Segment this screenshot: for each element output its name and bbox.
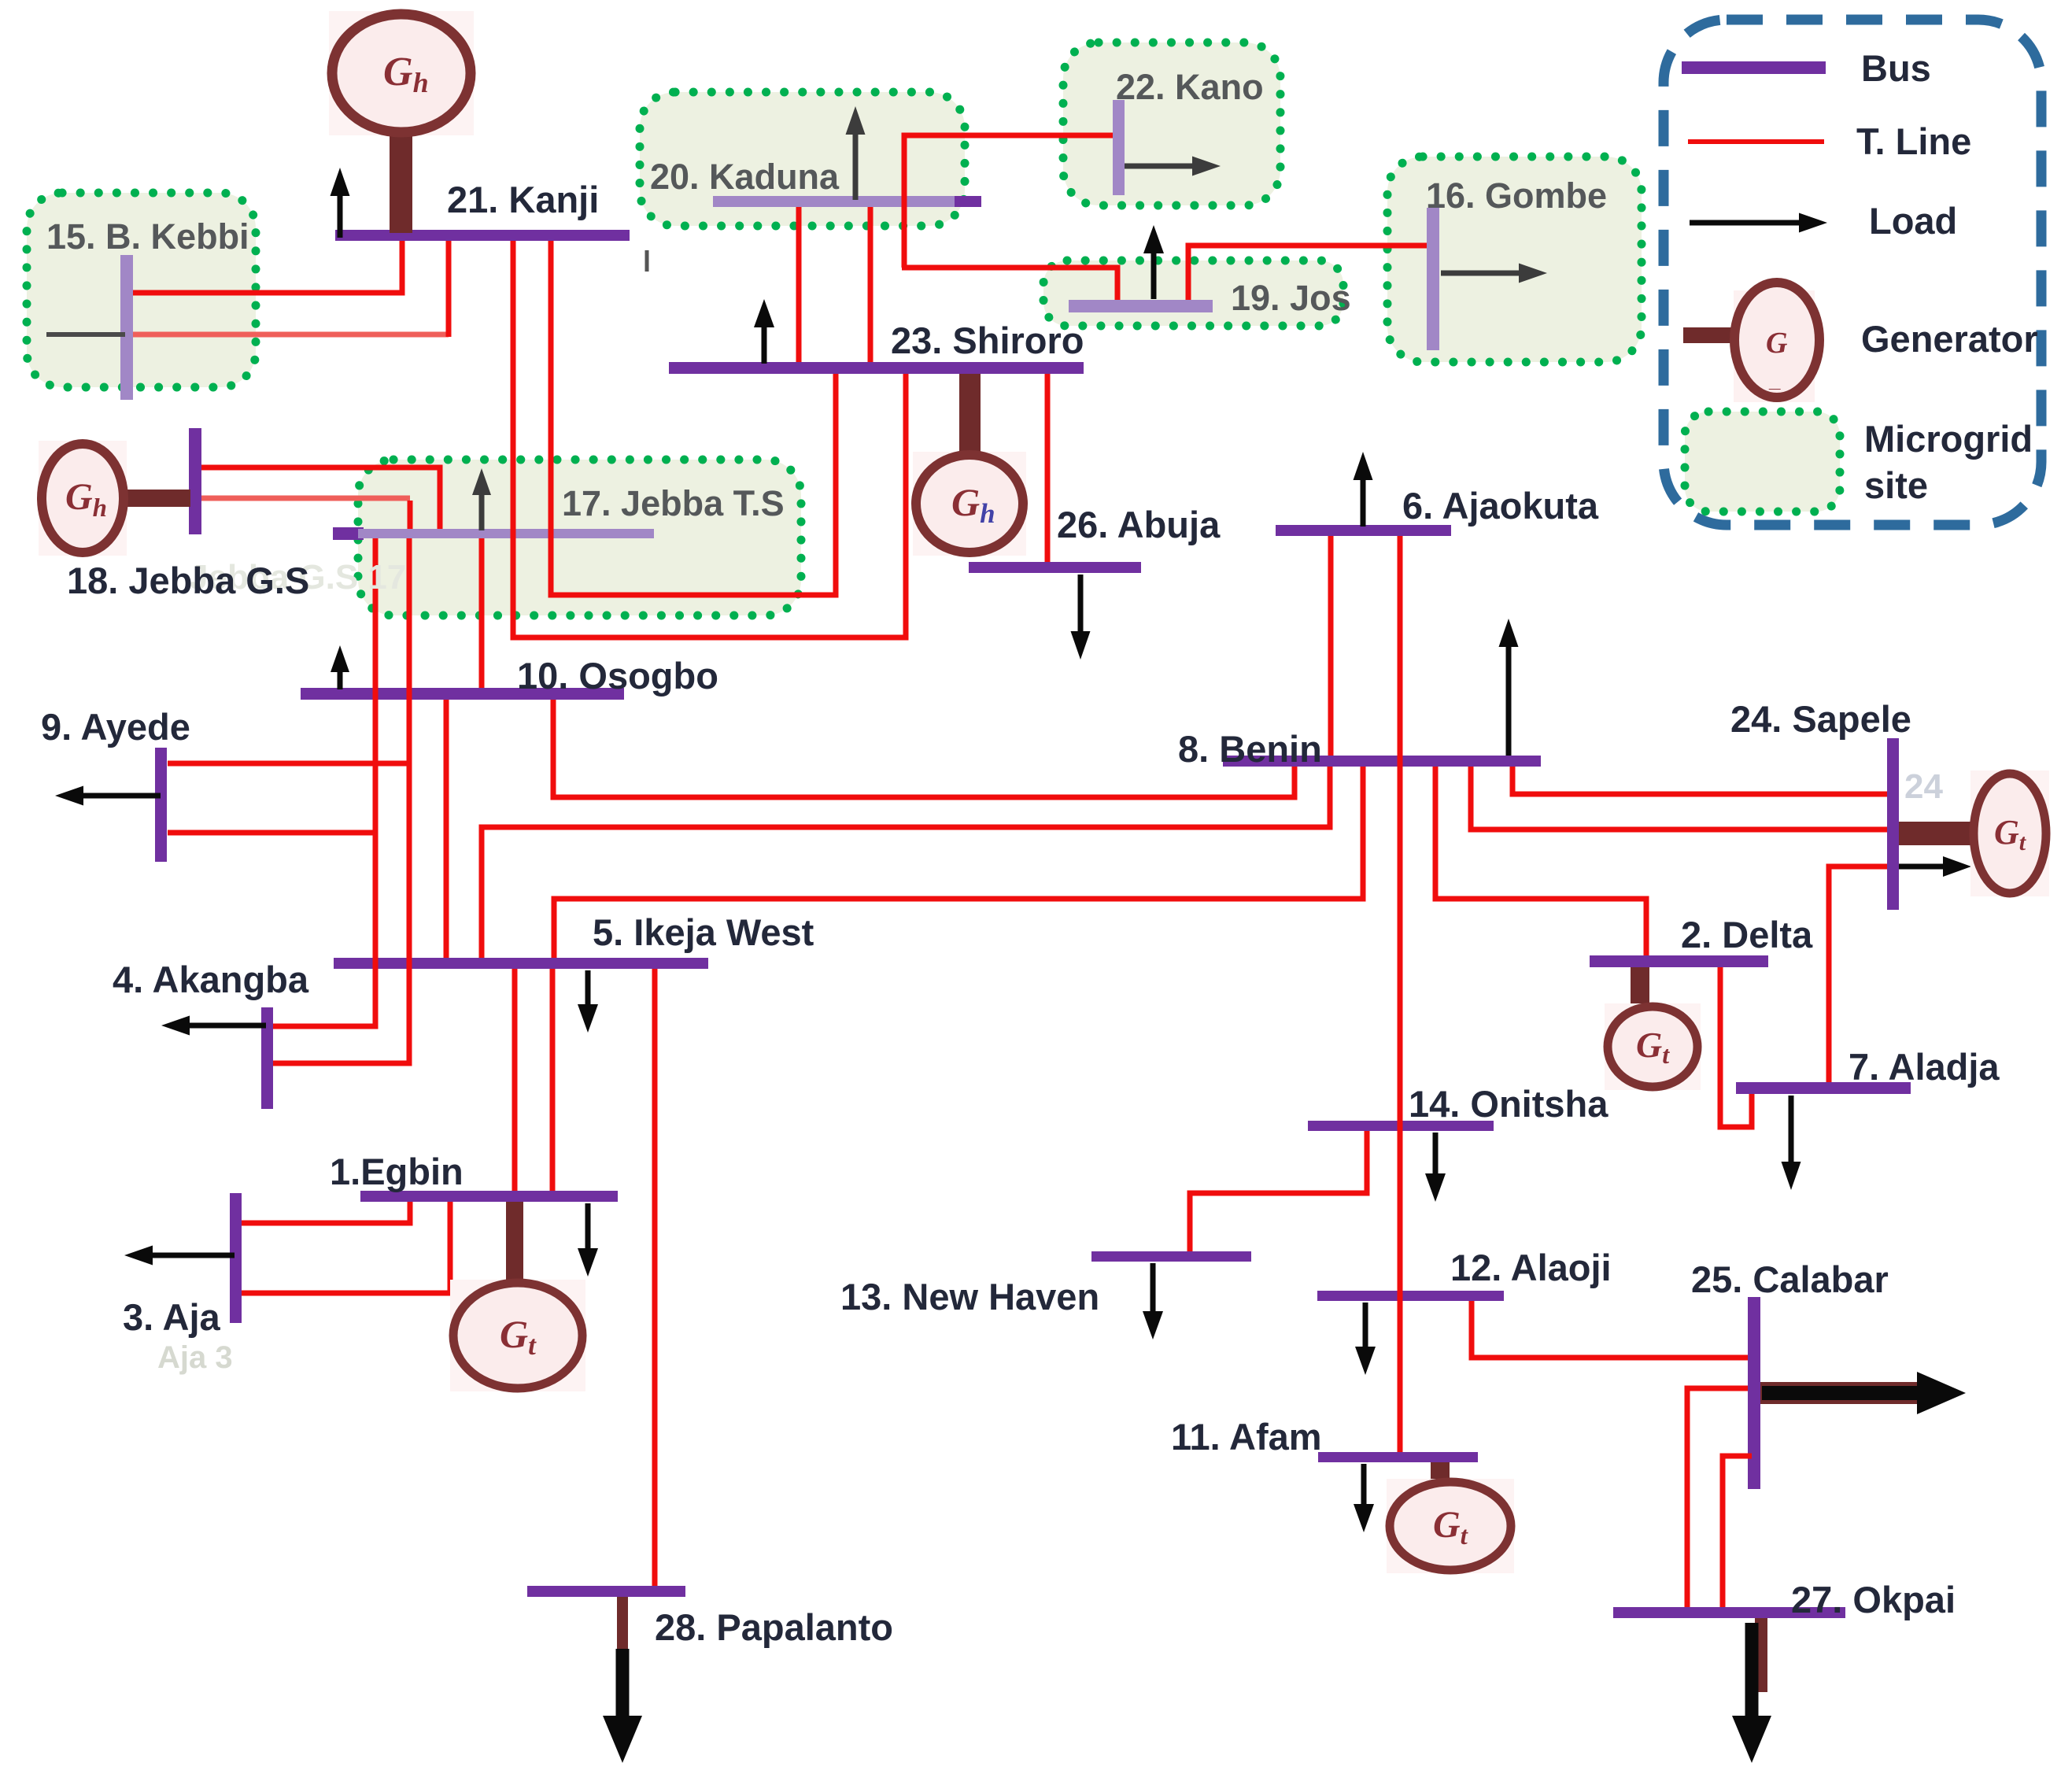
wire Ikeja West-Benin line 1 xyxy=(482,767,1330,958)
legend microgrid symbol xyxy=(1685,412,1840,512)
label bus 5 xyxy=(593,911,814,953)
bus 13 New Haven xyxy=(1091,1251,1251,1262)
wire Akangba-Ikeja West line 1 xyxy=(273,833,375,1026)
label bus 9 xyxy=(41,706,190,748)
wire Kaduna-Shiroro line 1 xyxy=(796,207,802,362)
svg-text:14. Onitsha: 14. Onitsha xyxy=(1409,1083,1608,1125)
label bus 11 xyxy=(1171,1416,1322,1458)
svg-text:22. Kano: 22. Kano xyxy=(1116,67,1264,107)
wire Delta-Aladja xyxy=(1720,967,1752,1127)
svg-text:11. Afam: 11. Afam xyxy=(1171,1416,1322,1458)
bus 27 Okpai xyxy=(1613,1607,1845,1618)
load arrow Jos xyxy=(1143,225,1164,299)
svg-text:9. Ayede: 9. Ayede xyxy=(41,706,190,748)
wire Ikeja West-Benin line 2 xyxy=(554,767,1363,958)
bus 8 Benin xyxy=(1223,756,1541,767)
label bus 23 xyxy=(891,320,1084,361)
microgrid site box 17 Jebba T.S xyxy=(358,460,801,615)
svg-text:Load: Load xyxy=(1869,200,1957,242)
label bus 13 xyxy=(840,1276,1099,1317)
svg-text:7. Aladja: 7. Aladja xyxy=(1849,1046,2000,1088)
load arrow Gombe xyxy=(1441,264,1547,283)
svg-text:Microgrid: Microgrid xyxy=(1864,418,2033,460)
generator Gt Egbin xyxy=(450,1202,585,1391)
load arrow Ayede xyxy=(55,786,161,806)
label bus 12 xyxy=(1450,1247,1612,1288)
bus 24 Sapele xyxy=(1887,738,1899,910)
bus 7 Aladja xyxy=(1736,1082,1911,1094)
wire Kaduna-Shiroro line 2 xyxy=(868,207,873,362)
wire Benin-Delta xyxy=(1435,767,1646,955)
legend generator text xyxy=(1861,318,2038,360)
label bus 27 xyxy=(1791,1579,1956,1620)
svg-text:21. Kanji: 21. Kanji xyxy=(447,179,599,220)
generator stem Okpai + load arrow xyxy=(1732,1618,1771,1763)
generator Gt Afam xyxy=(1387,1462,1514,1573)
ghost tick near Kanji xyxy=(645,250,649,272)
wire Benin-Ajaokuta / Benin-Onitsha-Afam xyxy=(1398,536,1403,1452)
bus 3 Aja xyxy=(230,1193,242,1323)
svg-text:site: site xyxy=(1864,464,1928,506)
svg-text:18. Jebba G.S: 18. Jebba G.S xyxy=(67,560,309,601)
load arrow Akangba xyxy=(161,1016,266,1036)
svg-text:28. Papalanto: 28. Papalanto xyxy=(655,1606,893,1648)
svg-text:Aja 3: Aja 3 xyxy=(157,1340,233,1375)
legend load text xyxy=(1869,200,1957,242)
svg-text:6. Ajaokuta: 6. Ajaokuta xyxy=(1402,485,1599,527)
wire Benin-Sapele line 2 xyxy=(1512,767,1887,794)
svg-text:3. Aja: 3. Aja xyxy=(123,1296,221,1338)
generator Gt Delta xyxy=(1605,967,1701,1090)
load arrow Onitsha xyxy=(1425,1133,1446,1202)
load arrow Egbin xyxy=(578,1203,598,1277)
bus 21 Kanji xyxy=(335,230,630,241)
wire Kaduna-Jos xyxy=(902,268,1117,300)
svg-text:T. Line: T. Line xyxy=(1856,120,1971,162)
load arrow Kaduna xyxy=(846,106,866,200)
load arrow Jebba T.S xyxy=(472,468,491,530)
svg-text:25. Calabar: 25. Calabar xyxy=(1691,1258,1889,1300)
load arrow Afam xyxy=(1354,1464,1374,1532)
load arrow Calabar (thick) xyxy=(1760,1372,1966,1414)
bus 1 Egbin xyxy=(360,1191,618,1202)
wire Jebba G.S-Jebba T.S line 2 xyxy=(201,498,410,529)
label bus 19 xyxy=(1231,278,1351,318)
bus 9 Ayede xyxy=(155,748,167,862)
bus 2 Delta xyxy=(1590,955,1768,967)
wire Osogbo-Ikeja West xyxy=(444,700,449,958)
load arrow New Haven xyxy=(1143,1263,1163,1340)
bus 11 Afam xyxy=(1318,1452,1478,1462)
svg-text:24. Sapele: 24. Sapele xyxy=(1730,698,1911,740)
load arrow Abuja xyxy=(1071,575,1091,660)
label bus 7 xyxy=(1849,1046,2000,1088)
generator Gh Shiroro xyxy=(913,374,1026,556)
wire Shiroro-Abuja xyxy=(1045,374,1051,562)
bus 4 Akangba xyxy=(261,1007,273,1109)
svg-text:19. Jos: 19. Jos xyxy=(1231,278,1351,318)
wire Kanji-B.Kebbi line 1 xyxy=(133,241,402,293)
load arrow Shiroro xyxy=(754,299,774,364)
bus 16 Gombe xyxy=(1427,208,1439,350)
microgrid site box 16 Gombe xyxy=(1387,157,1642,362)
wire Kanji-Jebba-Shiroro line 2 xyxy=(551,241,836,595)
wire Jebba-Ayede line 1 xyxy=(168,538,409,763)
wire Jos-Gombe xyxy=(1188,246,1427,300)
wire Ikeja West-Egbin line 1 xyxy=(512,969,518,1191)
load arrow Alaoji xyxy=(1355,1303,1376,1375)
svg-text:17. Jebba T.S: 17. Jebba T.S xyxy=(562,483,785,523)
wire Osogbo-Benin xyxy=(553,700,1295,797)
label bus 18 xyxy=(67,560,309,601)
wire B.Kebbi stub xyxy=(46,332,125,337)
load arrow Ajaokuta xyxy=(1354,452,1373,527)
label bus 16 xyxy=(1426,176,1607,216)
bus 20 Kaduna xyxy=(713,196,981,207)
svg-text:26. Abuja: 26. Abuja xyxy=(1057,504,1221,545)
label bus 8 xyxy=(1178,728,1322,770)
wire Kanji-Jebba-Shiroro line 1 xyxy=(513,241,906,637)
svg-text:Generator: Generator xyxy=(1861,318,2038,360)
bus 26 Abuja xyxy=(969,562,1141,573)
legend t-line text xyxy=(1856,120,1971,162)
generator Gh Jebba G.S xyxy=(39,441,190,556)
label bus 24 xyxy=(1730,698,1911,740)
generator Gt Sapele xyxy=(1899,770,2049,896)
wire Calabar-Okpai line 1 xyxy=(1687,1388,1748,1607)
svg-text:13. New Haven: 13. New Haven xyxy=(840,1276,1099,1317)
bus 17 Jebba T.S xyxy=(333,527,654,540)
bus 12 Alaoji xyxy=(1317,1291,1504,1301)
svg-text:27. Okpai: 27. Okpai xyxy=(1791,1579,1956,1620)
load arrow Ikeja West xyxy=(578,970,598,1033)
load arrow Sapele xyxy=(1899,856,1971,877)
svg-text:24: 24 xyxy=(1904,767,1943,806)
bus 19 Jos xyxy=(1069,300,1213,312)
svg-text:20. Kaduna: 20. Kaduna xyxy=(650,157,840,197)
label bus 4 xyxy=(113,959,309,1000)
load arrow Osogbo xyxy=(331,645,349,689)
label bus 14 xyxy=(1409,1083,1608,1125)
wire Benin-Ajaokuta line 1 xyxy=(1328,536,1334,756)
legend bus text xyxy=(1861,47,1931,89)
legend bus symbol xyxy=(1682,61,1826,74)
svg-text:16. Gombe: 16. Gombe xyxy=(1426,176,1607,216)
wire Aja-Egbin line 2 xyxy=(242,1202,450,1293)
generator Gh Kanji xyxy=(329,11,474,233)
legend t-line symbol xyxy=(1688,139,1824,144)
bus 5 Ikeja West xyxy=(334,958,708,969)
legend frame xyxy=(1664,20,2041,525)
ghost text Aja 3 xyxy=(157,1340,233,1375)
label bus 22 xyxy=(1116,67,1264,107)
svg-text:23. Shiroro: 23. Shiroro xyxy=(891,320,1084,361)
bus 23 Shiroro xyxy=(669,362,1084,374)
wire Jebba-Ayede line 2 xyxy=(168,538,375,833)
wire Onitsha-New Haven xyxy=(1190,1131,1367,1251)
label bus 20 xyxy=(650,157,840,197)
svg-text:4. Akangba: 4. Akangba xyxy=(113,959,309,1000)
microgrid site box 15 B.Kebbi xyxy=(27,193,256,387)
svg-text:15. B. Kebbi: 15. B. Kebbi xyxy=(46,216,249,257)
wire Benin-Sapele line 1 xyxy=(1471,767,1887,830)
legend load symbol xyxy=(1690,213,1827,233)
legend generator symbol xyxy=(1683,283,1819,402)
label bus 1 xyxy=(330,1151,464,1192)
load arrow Benin xyxy=(1499,619,1519,756)
bus 25 Calabar xyxy=(1748,1297,1760,1489)
microgrid site box 20 Kaduna xyxy=(640,92,965,226)
bus 18 Jebba G.S xyxy=(189,428,201,534)
label bus 3 xyxy=(123,1296,221,1338)
wire Ikeja West-Egbin line 2 xyxy=(550,969,556,1191)
ghost text Jebba G.S 17 xyxy=(189,558,406,597)
bus 22 Kano xyxy=(1113,100,1125,195)
ghost text 24 near Sapele xyxy=(1904,767,1943,806)
wire Jebba T.S-Osogbo xyxy=(479,538,485,688)
load arrow Aja xyxy=(124,1246,235,1266)
label bus 26 xyxy=(1057,504,1221,545)
wire Aja-Egbin line 1 xyxy=(242,1202,410,1223)
svg-text:_: _ xyxy=(1768,368,1781,392)
wire Kanji-B.Kebbi line 2 xyxy=(133,241,449,337)
label bus 15 xyxy=(46,216,249,257)
label bus 21 xyxy=(447,179,599,220)
svg-text:G: G xyxy=(1766,327,1788,360)
svg-text:8. Benin: 8. Benin xyxy=(1178,728,1322,770)
wire Jebba G.S-Jebba T.S line 1 xyxy=(201,467,440,529)
bus 14 Onitsha xyxy=(1308,1121,1494,1131)
wire Ikeja West-Papalanto xyxy=(652,969,658,1586)
label bus 2 xyxy=(1681,914,1813,955)
bus 28 Papalanto xyxy=(527,1586,685,1597)
svg-text:5. Ikeja West: 5. Ikeja West xyxy=(593,911,814,953)
label bus 25 xyxy=(1691,1258,1889,1300)
wire Kaduna-Kano xyxy=(904,135,1113,268)
svg-text:Bus: Bus xyxy=(1861,47,1931,89)
load arrow Kanji xyxy=(331,168,350,238)
label bus 6 xyxy=(1402,485,1599,527)
svg-text:12. Alaoji: 12. Alaoji xyxy=(1450,1247,1612,1288)
microgrid site box 19 Jos xyxy=(1043,261,1343,326)
wire Calabar-Okpai line 2 xyxy=(1723,1456,1752,1607)
bus 6 Ajaokuta xyxy=(1276,525,1451,536)
svg-text:10. Osogbo: 10. Osogbo xyxy=(517,655,718,697)
label bus 28 xyxy=(655,1606,893,1648)
svg-text:2. Delta: 2. Delta xyxy=(1681,914,1813,955)
wire Sapele-Aladja xyxy=(1829,867,1887,1082)
wire Alaoji-Calabar xyxy=(1472,1301,1748,1358)
load arrow Kano xyxy=(1125,157,1221,176)
wire Akangba-Ikeja West line 2 xyxy=(273,763,409,1063)
svg-text:1.Egbin: 1.Egbin xyxy=(330,1151,464,1192)
bus 15 B.Kebbi xyxy=(120,255,133,400)
bus 10 Osogbo xyxy=(301,688,624,700)
load arrow Aladja xyxy=(1782,1096,1801,1190)
legend microgrid text xyxy=(1864,418,2033,506)
generator stem Papalanto + load arrow xyxy=(603,1597,642,1763)
microgrid site box 22 Kano xyxy=(1063,42,1280,205)
label bus 10 xyxy=(517,655,718,697)
label bus 17 xyxy=(562,483,785,523)
